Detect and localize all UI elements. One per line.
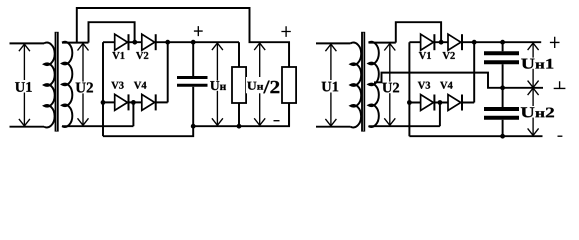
voltage arrow Un2: [528, 88, 539, 135]
junction node bridge top-right right: [472, 40, 477, 45]
wire: bottom rail right circuit: [409, 135, 542, 137]
capacitor C top lead: [192, 42, 194, 76]
capacitor Cn2 bottom lead: [502, 120, 504, 136]
wire: R1 bottom lead: [238, 103, 240, 126]
wire: R1 top lead: [238, 42, 240, 67]
voltage arrow U2: [78, 44, 89, 126]
voltage arrow U1: [19, 44, 30, 126]
wire: outer top loop secondary top to R2 top: [77, 8, 289, 67]
wire: secondary center tap to capacitor midpoint: [374, 73, 543, 88]
voltage arrow Un/2: [254, 43, 265, 125]
label Un1: [521, 58, 555, 69]
transformer secondary winding: [62, 42, 72, 127]
label U2 right: [382, 82, 399, 94]
junction node capacitor bottom: [191, 124, 196, 129]
transformer primary winding: [44, 43, 55, 128]
plus terminal left: [194, 26, 203, 36]
diode V2: [142, 34, 156, 50]
label Un2: [520, 106, 555, 118]
transformer core: [55, 32, 59, 132]
wire: bridge left edge right: [408, 42, 410, 136]
transformer core: [361, 32, 365, 132]
wire: secondary bottom lead: [62, 125, 133, 127]
label V3 right: [418, 82, 430, 89]
wire: bridge bottom connector to output rail: [103, 126, 193, 136]
transformer primary winding top lead: [316, 42, 351, 44]
voltage arrow Un: [212, 43, 223, 125]
junction node capacitor Cn1 top: [500, 40, 505, 45]
junction node bridge bottom-left right: [407, 100, 412, 105]
capacitor Cn2 top lead: [502, 88, 504, 107]
junction node bridge bottom-left: [101, 100, 106, 105]
wire: bridge left edge: [102, 42, 104, 136]
wire: bridge right edge: [167, 42, 169, 102]
wire: secondary top lead: [62, 42, 89, 44]
wire: bridge top row segments right: [409, 41, 474, 43]
voltage arrow U1: [325, 44, 336, 126]
diode V1: [115, 34, 129, 50]
capacitor Cn1 bottom lead: [502, 64, 504, 88]
junction node capacitor Cn2 bottom: [500, 134, 505, 139]
minus terminal right circuit: [558, 135, 563, 137]
wire: bridge right edge right: [473, 42, 475, 102]
wire: bridge top row segments: [103, 41, 168, 43]
label V1 right: [419, 52, 431, 59]
transformer secondary winding: [369, 42, 379, 127]
diode V3 right: [421, 95, 435, 111]
junction node V1-V2 right: [439, 40, 444, 45]
label Un/2: [246, 77, 280, 93]
label U1: [321, 80, 340, 93]
wire: bridge bottom row segments: [103, 101, 168, 103]
transformer primary winding: [351, 43, 362, 128]
wire: secondary top lead right: [369, 42, 396, 44]
wire: bridge bottom row segments right: [409, 102, 474, 104]
capacitor Cn1 top lead: [502, 42, 504, 51]
diode V4 right: [448, 95, 462, 111]
wire: riser to V3-V4 node right: [439, 103, 441, 127]
plus terminal right: [281, 26, 290, 37]
junction node bridge top-right: [165, 40, 170, 45]
capacitor C: [177, 78, 208, 86]
voltage arrow Un1: [528, 43, 539, 88]
resistor R2: [282, 67, 296, 103]
wire: output bottom rail: [193, 103, 289, 126]
transformer primary winding bottom lead: [10, 126, 45, 128]
label V1: [112, 52, 124, 59]
junction node V3-V4 right: [438, 100, 443, 105]
wire: riser from secondary bottom lead to V3-V4 node: [132, 102, 134, 126]
label V4: [134, 82, 147, 89]
capacitor Cn2: [484, 109, 519, 118]
label V2 right: [443, 52, 455, 59]
diode V3: [115, 94, 129, 110]
wire: top rail right circuit: [474, 41, 541, 43]
transformer primary winding top lead: [10, 42, 45, 44]
diode V1 right: [421, 34, 435, 50]
junction node V1-V2: [132, 40, 137, 45]
junction node capacitor top: [191, 40, 196, 45]
plus terminal right circuit: [550, 37, 560, 48]
diode V2 right: [448, 34, 462, 50]
junction node R1 bottom: [237, 124, 242, 129]
label Un: [209, 81, 228, 91]
wire: R2 bottom lead: [288, 103, 290, 126]
wire: inner top loop secondary top to V1-V2 node: [89, 22, 135, 42]
label V4 right: [440, 82, 453, 89]
voltage arrow U2 right: [384, 44, 395, 126]
transformer primary winding bottom lead: [316, 126, 351, 128]
diode V4: [142, 94, 156, 110]
wire: top loop right secondary top to V1-V2 node: [396, 22, 441, 42]
junction node capacitor midpoint: [500, 85, 505, 90]
wire: output top rail: [168, 41, 239, 43]
label V3: [111, 82, 123, 89]
midpoint terminal symbol: [554, 81, 566, 88]
label U2: [76, 82, 93, 94]
capacitor Cn1: [484, 53, 519, 62]
label V2: [136, 52, 148, 59]
minus terminal: [274, 120, 280, 122]
label U1: [14, 80, 33, 93]
junction node V3-V4: [131, 100, 136, 105]
capacitor C bottom lead: [192, 87, 194, 126]
resistor R1: [232, 67, 246, 103]
wire: secondary bottom lead right: [369, 125, 440, 127]
